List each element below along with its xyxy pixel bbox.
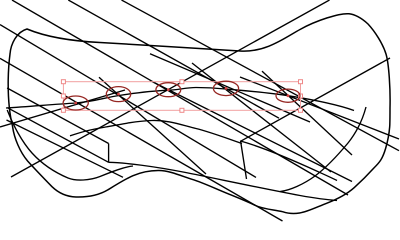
- shallow line C4 through e4: [150, 54, 310, 122]
- arc 1 through ellipse centers: [6, 88, 354, 111]
- string through e4: [192, 63, 331, 172]
- line D through e4: [68, 0, 279, 118]
- string through e3: [150, 81, 352, 182]
- line E: [122, 0, 400, 151]
- selection rectangle: [63, 82, 300, 111]
- ellipse center dots: [74, 87, 289, 104]
- slash line M2: [241, 58, 391, 141]
- body outline: [8, 14, 390, 214]
- line T3 from outline: [7, 120, 124, 177]
- tuner hole ellipses: [63, 81, 300, 110]
- step upper diagonal from outline: [7, 88, 109, 144]
- inner contour left: [7, 110, 133, 180]
- line B through e1: [0, 58, 283, 221]
- inner contour right: [280, 107, 366, 192]
- step lower diagonal from outline: [7, 108, 108, 163]
- line C through e3: [12, 0, 348, 195]
- step vertical: [108, 144, 110, 163]
- slash through e1 e2: [0, 90, 125, 127]
- inner bottom long curve from step to right edge: [109, 162, 337, 200]
- string through e5: [262, 71, 352, 155]
- curve from junction to right: [241, 141, 338, 181]
- line A through e2: [0, 25, 256, 178]
- selection handles: [61, 80, 302, 113]
- slash line M1: [11, 0, 330, 177]
- string through e2: [99, 77, 206, 174]
- arc 2: [70, 120, 242, 143]
- edge connector at arc2 end: [241, 141, 247, 180]
- shallow line C5 through e5: [240, 77, 399, 139]
